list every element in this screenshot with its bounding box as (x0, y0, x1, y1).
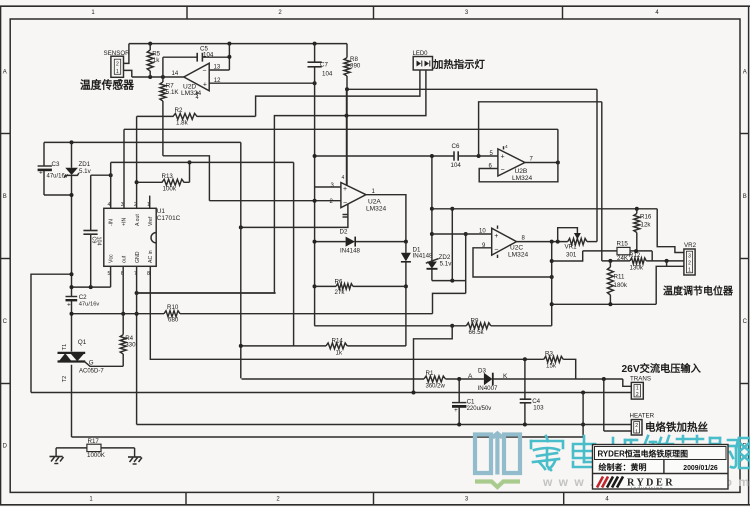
node junction pin11 (239, 225, 243, 229)
wire VR2 pin1 path (656, 266, 684, 304)
resistor R7 (160, 82, 166, 101)
svg-text:VR2: VR2 (684, 242, 697, 249)
wire x601.8 drop to R15 (601, 102, 603, 261)
resistor R3 (544, 356, 563, 362)
node junction R5 top (148, 42, 152, 46)
svg-text:1000K: 1000K (87, 452, 106, 459)
svg-text:27k: 27k (335, 289, 346, 296)
wire LED anode feed (256, 70, 420, 116)
node junction C4 bottom (523, 423, 527, 427)
svg-text:D: D (3, 444, 8, 450)
svg-text:103: 103 (533, 405, 544, 412)
node junction ZD2/208 line (430, 207, 434, 211)
svg-text:1.8k: 1.8k (176, 120, 189, 127)
watermark book icon (475, 435, 491, 474)
wire U2C pin10 line (432, 233, 492, 235)
op-amp U2A (341, 183, 366, 208)
capacitor C3 electrolytic (43, 142, 45, 166)
border frame outer top line (0, 5, 750, 7)
svg-text:LM324: LM324 (508, 251, 528, 258)
triac Q1 (58, 352, 86, 354)
svg-text:R16: R16 (640, 214, 652, 221)
wire U1 pin6 + resistor R4 (122, 266, 124, 334)
svg-text:U2C: U2C (510, 244, 523, 251)
watermark char zi (675, 436, 705, 468)
watermark char jia (531, 436, 563, 470)
node junction C6 left spine (313, 154, 317, 158)
wire VR1 right riser (596, 89, 598, 241)
node junction x413 bottom (412, 391, 416, 395)
capacitor C1 electrolytic (458, 379, 460, 403)
op-amp U2C (492, 228, 517, 255)
svg-text:U1: U1 (157, 208, 166, 215)
svg-text:LM324: LM324 (366, 206, 386, 213)
resistor R1 (424, 376, 446, 382)
svg-text:A: A (743, 70, 747, 76)
capacitor C2 electrolytic (66, 296, 78, 298)
svg-text:A: A (3, 70, 7, 76)
wire ZD2 bottom link (432, 280, 466, 282)
node junction R6 left (313, 284, 317, 288)
svg-text:AC in: AC in (148, 250, 154, 263)
svg-text:330: 330 (125, 341, 136, 348)
resistor R12 (602, 260, 630, 262)
wire TRANS drop to common (582, 393, 584, 438)
wire U1 pin8 AC column (150, 266, 544, 359)
node junction pin7/bus (135, 312, 139, 316)
node junction out col (550, 240, 554, 244)
wire U2D pin12 line (209, 82, 314, 84)
wire U1 pin1 stub (149, 196, 151, 209)
resistor R15 (box) (583, 250, 617, 252)
border frame outer left line (0, 6, 2, 505)
node junction col/304 (550, 302, 554, 306)
wire VR2 pin2-pin1 jumper (666, 261, 668, 266)
svg-text:C1: C1 (467, 398, 475, 405)
frame zone dividers top (186, 6, 188, 19)
node junction fb/out column (550, 275, 554, 279)
svg-text:R1: R1 (426, 370, 434, 377)
capacitor C6 (315, 155, 454, 157)
wire U2B feedback loop (479, 129, 558, 182)
svg-text:+: + (39, 170, 43, 177)
svg-text:4: 4 (342, 175, 345, 181)
wire U2C output line (517, 241, 568, 243)
svg-text:104: 104 (451, 162, 462, 169)
wire y208.8 line (432, 208, 657, 210)
diode D2 (315, 241, 346, 243)
svg-text:C3: C3 (52, 161, 60, 168)
wire U2A pin3 branch (315, 186, 341, 188)
wire U2A output (366, 195, 406, 242)
resistor R2 (137, 113, 256, 119)
resistor R17 (56, 447, 87, 449)
diode D3 (484, 373, 493, 386)
bus line y313.7 (72, 313, 165, 315)
svg-text:360/2w: 360/2w (426, 383, 446, 389)
svg-text:301: 301 (566, 252, 577, 259)
svg-text:T1: T1 (62, 344, 68, 350)
wire sensor pin1 stub (124, 70, 132, 77)
node junction C4 top (523, 357, 527, 361)
wire heater pin2 / cap common line (137, 424, 632, 426)
svg-text:+: + (67, 302, 71, 309)
svg-text:2009/01/26: 2009/01/26 (683, 465, 718, 472)
svg-text:1: 1 (116, 69, 119, 75)
wire C9 top link to pin4 (91, 174, 111, 176)
op-amp U2B (498, 149, 525, 176)
svg-text:B: B (3, 194, 7, 200)
frame zone dividers bottom (185, 492, 187, 504)
wire 304 line (552, 303, 657, 305)
wire U2C out column down (551, 242, 553, 326)
node junction C1 bottom (457, 423, 461, 427)
node junction pin13 riser top (227, 42, 231, 46)
node junction LED return / R8 column (345, 114, 349, 118)
svg-text:66.5k: 66.5k (469, 329, 485, 336)
wire left vertical to TRANS net (31, 274, 72, 392)
node junction x452 top (450, 207, 454, 211)
svg-text:RYDER恒温电烙铁原理图: RYDER恒温电烙铁原理图 (598, 448, 689, 458)
wire R15 right drop (651, 251, 653, 261)
svg-text:R6: R6 (335, 278, 343, 285)
node junction R13 left (135, 180, 139, 184)
wire sensor pin2 stub (124, 44, 129, 64)
svg-text:IN4007: IN4007 (478, 385, 499, 392)
svg-text:LM324: LM324 (181, 90, 201, 97)
diode D1 (405, 242, 407, 253)
svg-text:Q1: Q1 (78, 339, 87, 346)
zener diode ZD2 (431, 156, 433, 262)
svg-text:13: 13 (214, 65, 221, 71)
node junction drop/heater line (581, 423, 585, 427)
wire U1 pin3 (123, 129, 125, 208)
svg-text:SENSOR: SENSOR (104, 50, 131, 57)
node junction C3 bottom (70, 193, 74, 197)
op-amp U2D (points left) (184, 63, 209, 91)
svg-text:U2A: U2A (368, 199, 381, 206)
capacitor C4 (524, 359, 526, 399)
svg-text:T2: T2 (62, 376, 68, 382)
svg-text:+: + (501, 154, 505, 161)
svg-text:I n d u s t r i e s: I n d u s t r i e s (631, 486, 663, 491)
node junction bus/rail (70, 312, 74, 316)
svg-text:LED0: LED0 (413, 51, 429, 57)
node junction ZD1 top (70, 140, 74, 144)
svg-text:Vcc: Vcc (109, 254, 115, 263)
svg-text:R11: R11 (614, 274, 625, 281)
svg-text:R9: R9 (471, 318, 479, 325)
watermark char dian (573, 436, 598, 467)
svg-text:104: 104 (322, 71, 333, 78)
svg-text:R15: R15 (617, 241, 629, 248)
svg-text:−: − (494, 246, 498, 253)
svg-text:12k: 12k (641, 222, 652, 229)
wire U1 pin4 (110, 162, 112, 208)
svg-text:C2: C2 (79, 294, 87, 301)
LED indicator LED0 (413, 57, 432, 71)
node junction stair1 (450, 279, 454, 283)
svg-text:C6: C6 (452, 143, 460, 150)
node junction R5 bottom (148, 75, 152, 79)
wire Vref horizontal (y162) (111, 161, 294, 163)
svg-text:2: 2 (636, 392, 639, 398)
logo RYDER hatch mark (597, 477, 623, 488)
wire heater pin1 riser (603, 379, 605, 431)
ground symbol left (55, 448, 57, 457)
svg-text:1k: 1k (336, 349, 343, 356)
svg-text:C9: C9 (90, 237, 96, 244)
potentiometer VR1 (568, 238, 587, 244)
ground symbol right (134, 448, 136, 457)
svg-text:R10: R10 (167, 304, 179, 311)
svg-text:3: 3 (121, 202, 124, 208)
svg-text:130k: 130k (630, 264, 644, 271)
svg-text:390: 390 (350, 63, 361, 70)
wire pin5 riser + top link (479, 102, 602, 156)
wire U2D pin13 stub (209, 69, 229, 71)
svg-text:A: A (468, 373, 473, 380)
connector SENSOR (111, 56, 124, 77)
svg-text:温度调节电位器: 温度调节电位器 (663, 285, 734, 298)
resistor R9 (314, 325, 466, 327)
svg-text:−: − (501, 167, 505, 174)
node junction R7 top / C5 branch (161, 75, 165, 79)
svg-text:4: 4 (505, 144, 508, 150)
svg-text:R14: R14 (332, 337, 344, 344)
wire Vcc link (72, 286, 111, 288)
node junction D2 right (404, 240, 408, 244)
node junction C5 right (227, 55, 231, 59)
svg-text:加热指示灯: 加热指示灯 (432, 58, 486, 71)
svg-text:B: B (743, 194, 747, 200)
svg-text:R12: R12 (629, 252, 641, 259)
wire riser x452 (451, 209, 453, 281)
svg-text:ZD1: ZD1 (79, 161, 91, 168)
wire U2A pin2 line (209, 200, 341, 202)
svg-text:A out: A out (135, 214, 141, 226)
wire VR2 pin3 path (657, 209, 684, 253)
svg-text:out: out (122, 255, 128, 263)
svg-text:U2B: U2B (515, 168, 528, 175)
watermark char wei (607, 438, 637, 468)
watermark char liao (708, 438, 738, 468)
svg-text:+: + (494, 233, 498, 240)
svg-text:1k: 1k (153, 57, 160, 64)
svg-text:14: 14 (172, 71, 179, 77)
svg-text:C: C (3, 319, 8, 325)
node junction R8 bottom branch (345, 87, 349, 91)
svg-text:180k: 180k (614, 282, 628, 289)
svg-text:R17: R17 (88, 438, 100, 445)
svg-text:1: 1 (688, 267, 691, 273)
wire TRANS pin2 long line (31, 392, 631, 394)
wire U2B feedback top line (y129.3) (124, 128, 558, 130)
connector VR2 (684, 249, 695, 275)
resistor R14 (241, 345, 326, 347)
frame zone dividers right (740, 133, 749, 135)
node junction C9 bottom (89, 285, 93, 289)
svg-text:+IN: +IN (122, 218, 128, 226)
wire top rail (129, 43, 347, 45)
svg-text:15k: 15k (546, 362, 557, 369)
node junction R11 bottom (608, 302, 612, 306)
svg-text:680: 680 (168, 317, 179, 324)
svg-text:10: 10 (479, 229, 486, 235)
node junction R15/R16 (634, 249, 638, 253)
wire heater pin1 stub (604, 430, 632, 432)
svg-text:220u/50v: 220u/50v (467, 406, 492, 412)
wire K line (493, 378, 623, 380)
svg-text:AC05D-7: AC05D-7 (79, 368, 104, 374)
wire U2A pin11 line (241, 204, 348, 227)
svg-text:R3: R3 (545, 350, 553, 357)
svg-text:100k: 100k (163, 186, 177, 193)
IC U1 C1701C (104, 208, 156, 266)
watermark char xiu (644, 436, 673, 468)
capacitor C5 (163, 56, 197, 58)
svg-text:104: 104 (96, 237, 102, 246)
svg-text:IN4148: IN4148 (413, 253, 434, 260)
node junction pin2/spine (313, 199, 317, 203)
svg-text:1: 1 (636, 385, 639, 391)
svg-text:-IN: -IN (109, 219, 115, 226)
wire left rail (ZD1/C2/Q1 column) (71, 142, 73, 167)
wire riser x465.7 (465, 234, 467, 293)
wire U2B pin5 stub (479, 155, 498, 157)
border frame outer right line (748, 6, 750, 505)
svg-text:GND: GND (135, 251, 141, 263)
title block column divider (663, 460, 665, 474)
wire C5 left riser (162, 57, 164, 77)
svg-text:2: 2 (635, 423, 638, 429)
wire pin13 riser (228, 44, 230, 70)
resistor R6 (315, 285, 337, 287)
svg-text:+: + (454, 407, 458, 414)
wire 338 link left (414, 326, 453, 393)
svg-text:R13: R13 (162, 173, 174, 180)
svg-text:R2: R2 (175, 107, 183, 114)
svg-text:26V交流电压输入: 26V交流电压输入 (622, 362, 702, 375)
svg-text:5.1v: 5.1v (440, 261, 453, 268)
resistor R10 (164, 311, 180, 317)
node junction R13 riser top (188, 160, 192, 164)
wire input node line (132, 76, 184, 78)
wire top-left horizontal (C3/ZD1 top) (44, 141, 241, 143)
wire U1 pin7 GND column (136, 266, 138, 424)
resistor R5 (147, 50, 153, 71)
svg-text:3: 3 (688, 253, 691, 259)
title block row divider (593, 473, 729, 475)
wire U2C pin9 feedback (473, 248, 552, 277)
node junction R11 top (608, 259, 612, 263)
wire U1 pin2 (136, 116, 138, 208)
node junction R6 right (404, 284, 408, 288)
svg-text:5.1K: 5.1K (166, 89, 180, 96)
border frame outer bottom line (0, 504, 750, 506)
wire R1/D3 line (242, 378, 425, 380)
svg-text:w w w .: w w w . (542, 475, 595, 489)
svg-text:D3: D3 (478, 367, 486, 374)
svg-text:C1701C: C1701C (157, 215, 181, 222)
node junction U2B out (556, 161, 560, 165)
zener diode ZD1 (65, 168, 78, 175)
resistor R11 (609, 261, 611, 267)
wire U1 pin5 (110, 266, 112, 287)
svg-text:D2: D2 (340, 229, 348, 236)
node junction TRANS drop (581, 391, 585, 395)
svg-text:绘制者：黄明: 绘制者：黄明 (599, 462, 647, 472)
svg-text:−: − (343, 200, 347, 207)
svg-text:TRANS: TRANS (630, 376, 651, 383)
capacitor C7 (308, 61, 322, 63)
wire long vertical x240.8 (240, 142, 243, 377)
wire R7 elbow (y155.8) (163, 156, 210, 201)
node junction ZD2/pin10 (430, 232, 434, 236)
node junction pin4 column (109, 173, 113, 177)
svg-text:47u/16v: 47u/16v (79, 302, 100, 308)
node junction U2B pin5 (477, 154, 481, 158)
svg-text:+: + (343, 186, 347, 193)
svg-text:2: 2 (688, 260, 691, 266)
svg-text:LM324: LM324 (512, 175, 532, 182)
svg-text:C7: C7 (320, 62, 328, 69)
svg-text:VR1: VR1 (565, 243, 578, 250)
node junction VR1 wiper base (556, 240, 560, 244)
svg-text:104: 104 (203, 52, 214, 59)
capacitor C9 (83, 230, 97, 232)
node junction C1 top (457, 377, 461, 381)
wire GND link y293 (137, 292, 276, 294)
svg-text:2: 2 (116, 62, 119, 68)
node junction C6/ZD2 column (430, 154, 434, 158)
svg-text:温度传感器: 温度传感器 (80, 78, 134, 92)
node junction rail/274 (70, 272, 74, 276)
svg-text:+: + (203, 82, 207, 89)
wire T2 common line (72, 436, 584, 438)
node junction x465 top (464, 232, 468, 236)
node junction GND link (135, 291, 139, 295)
resistor R13 (137, 179, 190, 185)
wire y162 drop to R14 (293, 162, 295, 346)
node junction col/R12 feed (550, 259, 554, 263)
svg-text:Vref: Vref (148, 216, 154, 226)
wire R15 feed jog (552, 251, 583, 261)
svg-text:电烙铁加热丝: 电烙铁加热丝 (645, 421, 708, 434)
node junction stair/R9 (450, 324, 454, 328)
node junction C7 bottom (313, 81, 317, 85)
resistor R8 (344, 58, 350, 76)
node junction R14 left (239, 344, 243, 348)
svg-text:HEATER: HEATER (630, 413, 655, 420)
svg-text:8: 8 (147, 271, 150, 277)
node junction R16 top (635, 207, 639, 211)
title block row1 inner box (595, 447, 727, 460)
svg-text:−: − (202, 67, 206, 74)
wire stair link (433, 293, 466, 313)
svg-text:1: 1 (635, 429, 638, 435)
node junction D2 left (313, 240, 317, 244)
svg-text:5.1v: 5.1v (79, 168, 92, 175)
svg-text:IN4148: IN4148 (340, 248, 361, 255)
wire C3 bottom link (44, 194, 72, 196)
watermark char wang (739, 438, 750, 468)
node junction Vcc rail (70, 285, 74, 289)
wire LED cathode return (137, 70, 426, 293)
svg-text:C: C (743, 319, 748, 325)
wire C7 column long spine (314, 44, 316, 63)
node junction C7 top (313, 42, 317, 46)
